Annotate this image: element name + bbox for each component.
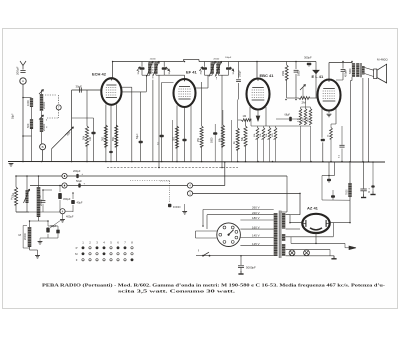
svg-text:400µF: 400µF: [66, 215, 74, 219]
svg-text:1M: 1M: [243, 114, 247, 118]
svg-text:7000: 7000: [346, 189, 349, 195]
svg-text:500: 500: [26, 123, 30, 128]
svg-text:50µF: 50µF: [76, 179, 82, 183]
svg-text:125 V: 125 V: [252, 242, 260, 246]
svg-text:200pF: 200pF: [16, 66, 20, 75]
svg-text:300pF: 300pF: [238, 70, 241, 77]
svg-text:145 V: 145 V: [252, 234, 260, 238]
svg-text:20000: 20000: [213, 58, 220, 60]
svg-text:M 460Ω: M 460Ω: [377, 58, 388, 62]
svg-text:5000pF: 5000pF: [246, 266, 256, 270]
svg-text:450µF: 450µF: [63, 197, 71, 201]
svg-text:40µF: 40µF: [77, 201, 83, 205]
svg-text:30pF: 30pF: [138, 69, 140, 75]
svg-text:AZ 41: AZ 41: [307, 206, 319, 211]
svg-text:220 V: 220 V: [252, 211, 260, 215]
svg-text:scita 3,5 watt. Consumo 30 wat: scita 3,5 watt. Consumo 30 watt.: [118, 289, 235, 294]
svg-text:160 V: 160 V: [252, 225, 260, 229]
svg-text:300: 300: [101, 136, 104, 141]
svg-text:300k: 300k: [307, 118, 309, 122]
svg-text:1000: 1000: [26, 100, 30, 106]
svg-text:FONO: FONO: [173, 205, 181, 209]
svg-text:200µF: 200µF: [73, 169, 81, 173]
svg-text:450pF: 450pF: [344, 69, 348, 77]
svg-text:50µF: 50µF: [136, 133, 139, 139]
svg-text:30pF: 30pF: [233, 69, 235, 75]
svg-text:F: F: [76, 258, 78, 262]
svg-text:5000: 5000: [211, 137, 214, 143]
svg-text:50pF: 50pF: [12, 113, 15, 119]
svg-text:ℓ: ℓ: [198, 249, 199, 253]
svg-text:EF 41: EF 41: [186, 69, 197, 74]
svg-text:500k: 500k: [302, 118, 304, 122]
svg-text:B: B: [42, 145, 44, 149]
svg-text:30pF: 30pF: [200, 69, 202, 75]
svg-text:30pF: 30pF: [76, 85, 83, 89]
svg-text:30pF: 30pF: [169, 69, 171, 75]
svg-text:300: 300: [173, 136, 176, 141]
svg-text:100pF: 100pF: [225, 57, 232, 59]
svg-text:20000: 20000: [24, 232, 27, 240]
svg-text:E L 41: E L 41: [312, 74, 324, 79]
svg-text:A: A: [22, 79, 24, 83]
svg-text:PEBA RADIO (Portuanti) - Mod.: PEBA RADIO (Portuanti) - Mod. R/602. Gam…: [42, 283, 386, 288]
svg-text:20000: 20000: [150, 58, 157, 60]
svg-text:EBC 41: EBC 41: [260, 73, 275, 78]
svg-text:4,7k: 4,7k: [297, 118, 299, 122]
svg-text:100: 100: [89, 136, 92, 141]
svg-text:68µF: 68µF: [285, 113, 291, 116]
svg-text:5000: 5000: [349, 68, 352, 74]
svg-text:20000: 20000: [42, 101, 46, 109]
svg-text:250k: 250k: [282, 70, 285, 76]
svg-text:50k: 50k: [82, 135, 86, 140]
svg-text:5000: 5000: [297, 70, 300, 76]
svg-text:300pF: 300pF: [304, 56, 312, 60]
svg-text:P: P: [76, 246, 78, 250]
svg-text:2M: 2M: [302, 101, 307, 105]
svg-text:ECH 42: ECH 42: [92, 71, 107, 76]
svg-text:260 V: 260 V: [252, 206, 260, 210]
svg-text:180 V: 180 V: [252, 216, 260, 220]
